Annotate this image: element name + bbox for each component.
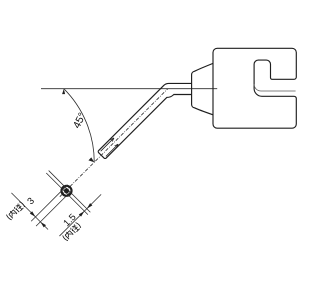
dim-1.5 arrow left [79, 210, 86, 217]
bent pipe [98, 83, 192, 158]
dim-3 dimension line [11, 193, 48, 230]
label naikei-A glyph kei [14, 203, 24, 213]
angle text 45deg [72, 112, 85, 129]
pipe centerline (dash-dot) [60, 89, 168, 197]
label naikei-A paren close [19, 201, 25, 207]
45 degree dimension arc [64, 89, 94, 163]
label naikei-A glyph nai [8, 209, 17, 218]
cone between pipe and body [192, 63, 213, 114]
dim-1.5 arrow right [86, 203, 93, 210]
label naikei-B glyph nai [64, 230, 73, 239]
arc arrowhead bottom [88, 157, 94, 162]
flow arrow [106, 144, 118, 156]
flow arrow [101, 138, 114, 151]
dim text 3 [27, 197, 35, 205]
dim text 1.5 [63, 219, 71, 227]
dim-3 extension lines [31, 185, 67, 221]
horizontal reference line [41, 88, 217, 90]
label naikei-A paren open [6, 215, 12, 221]
nozzle body with bayonet slot [213, 48, 296, 128]
slot middle line [254, 84, 296, 91]
label naikei-B paren close [76, 222, 82, 228]
tip end circle inner [63, 187, 70, 194]
label naikei-B glyph kei [70, 224, 80, 234]
arc arrowhead top [62, 89, 65, 94]
dim-1.5 dimension line [59, 194, 101, 236]
tip end circle outer [59, 184, 73, 198]
label naikei-B paren open [62, 235, 68, 241]
dim-3 arrow upper [30, 211, 37, 218]
dim-1.5 extension lines [46, 173, 88, 215]
dim-3 arrow lower [39, 221, 46, 228]
